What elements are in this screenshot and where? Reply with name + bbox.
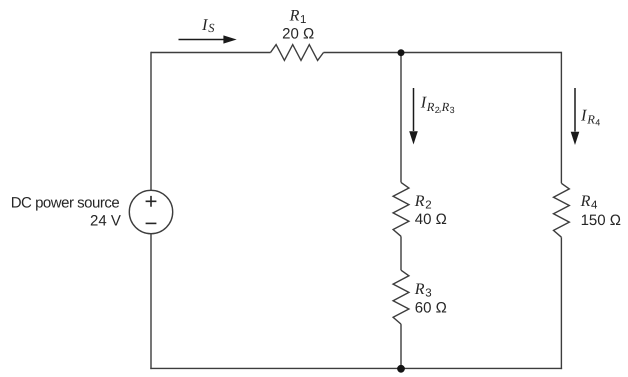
resistor R1 zigzag: [271, 45, 324, 61]
svg-text:R: R: [441, 100, 450, 114]
svg-text:DC power source: DC power source: [11, 194, 120, 211]
svg-text:2: 2: [425, 199, 431, 211]
wire right lower: [560, 237, 562, 369]
current arrow IR4: [574, 88, 576, 132]
svg-text:150 Ω: 150 Ω: [581, 212, 621, 229]
wire top-right segment: [324, 52, 562, 54]
svg-text:R: R: [414, 193, 425, 210]
svg-text:R: R: [414, 281, 425, 298]
svg-text:R: R: [586, 113, 595, 127]
node dot bottom junction: [397, 365, 405, 373]
wire top-left segment: [151, 52, 271, 54]
svg-text:20 Ω: 20 Ω: [282, 25, 314, 42]
svg-text:24 V: 24 V: [90, 212, 121, 229]
wire left lower: [150, 234, 152, 369]
svg-text:S: S: [208, 21, 215, 35]
svg-text:R: R: [289, 8, 300, 25]
svg-text:4: 4: [591, 199, 598, 211]
svg-text:R: R: [426, 100, 435, 114]
svg-text:3: 3: [425, 287, 431, 299]
resistor R4 zigzag: [554, 183, 570, 237]
wire middle lower: [400, 324, 402, 368]
svg-text:60 Ω: 60 Ω: [415, 300, 447, 317]
wire right upper: [560, 52, 562, 184]
wire middle between R2 and R3: [400, 236, 402, 270]
wire left upper: [150, 52, 152, 191]
voltage source minus sign: [146, 222, 157, 224]
voltage source plus sign: [146, 196, 157, 207]
resistor R2 zigzag: [393, 182, 409, 236]
voltage source V1 circle: [129, 190, 172, 233]
wire bottom: [150, 367, 562, 369]
svg-text:4: 4: [595, 118, 600, 128]
svg-text:R: R: [580, 193, 591, 210]
current arrow IS: [179, 39, 225, 41]
node dot top junction: [398, 49, 405, 56]
svg-text:40 Ω: 40 Ω: [415, 211, 447, 228]
wire middle upper: [400, 53, 402, 183]
svg-text:3: 3: [450, 105, 455, 115]
resistor R3 zigzag: [393, 270, 409, 324]
svg-text:1: 1: [300, 14, 306, 26]
current arrow IR2R3: [413, 88, 415, 131]
